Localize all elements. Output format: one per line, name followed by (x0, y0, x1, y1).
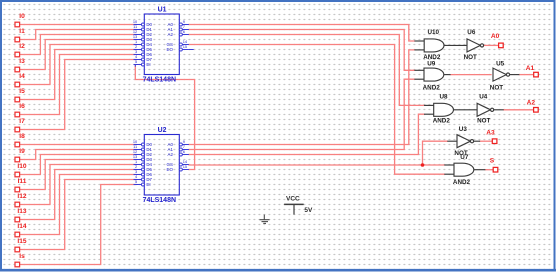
svg-text:NOT: NOT (477, 117, 490, 124)
svg-text:U8: U8 (440, 94, 449, 101)
svg-text:U3: U3 (459, 126, 468, 133)
not gate U6 (467, 39, 484, 52)
wire I15 to U2.D7 (20, 180, 136, 250)
svg-text:VCC: VCC (286, 195, 300, 202)
svg-text:EO: EO (167, 47, 174, 52)
svg-text:U4: U4 (479, 94, 488, 101)
wire I12 to U2.D4 (20, 165, 136, 205)
svg-text:74LS148N: 74LS148N (143, 77, 176, 84)
input connector I1 (15, 28, 25, 42)
and gate U10 (414, 39, 467, 52)
wire I2 to U1.D2 (20, 35, 136, 55)
wire U1.A2 to U8 input A (189, 35, 424, 106)
input connector I13 (15, 208, 27, 222)
svg-text:I12: I12 (17, 193, 26, 200)
wire I11 to U2.D3 (20, 160, 136, 190)
svg-text:I13: I13 (17, 208, 26, 215)
output connector A1 (526, 65, 539, 77)
wire U1.GS to U7 input B (189, 45, 444, 175)
junction node U2.GS branch (421, 163, 425, 167)
wire I7 to U1.D7 (20, 60, 136, 130)
input connector I4 (15, 73, 25, 87)
input connector I14 (15, 223, 27, 237)
not gate U4 (477, 103, 504, 116)
wire U9 output to U5 input (451, 74, 492, 76)
svg-text:U10: U10 (428, 29, 440, 36)
encoder U1 74LS148N (133, 7, 194, 84)
svg-text:I7: I7 (19, 118, 25, 125)
wire U2.A0 to U10 input B (189, 50, 415, 145)
wire I8 to U2.D0 (20, 144, 136, 146)
svg-text:AND2: AND2 (423, 84, 441, 91)
svg-text:A2: A2 (168, 32, 174, 37)
wire U5 output to A1 (519, 74, 533, 76)
ground (260, 215, 270, 224)
output connector A2 (527, 100, 539, 112)
input connector I5 (15, 88, 25, 102)
not gate U5 (493, 68, 519, 81)
svg-text:NOT: NOT (464, 54, 477, 61)
svg-text:A0: A0 (491, 33, 500, 40)
svg-text:U5: U5 (496, 60, 505, 67)
output connector A0 (491, 33, 503, 48)
wire U2.GS to U7 input A (189, 164, 444, 166)
wire U2.A1 to U9 input B (189, 79, 415, 149)
encoder U2 74LS148N (133, 127, 189, 204)
svg-text:I11: I11 (18, 178, 27, 185)
svg-text:NOT: NOT (454, 150, 467, 157)
svg-text:5V: 5V (304, 207, 313, 214)
svg-text:15: 15 (183, 44, 187, 49)
svg-text:A2: A2 (527, 100, 536, 107)
svg-text:6: 6 (183, 149, 185, 154)
wire U1.A1 to U9 input A (189, 30, 415, 71)
wire I4 to U1.D4 (20, 45, 136, 85)
input connector I11 (15, 178, 27, 192)
svg-text:I8: I8 (19, 133, 25, 140)
wire U3 output to A3 (480, 140, 492, 142)
svg-text:A1: A1 (526, 65, 535, 72)
svg-text:I0: I0 (19, 13, 25, 20)
input connector I12 (15, 193, 27, 207)
svg-text:I14: I14 (17, 223, 26, 230)
wire U7 output to S (485, 169, 493, 171)
svg-text:I2: I2 (19, 43, 25, 50)
svg-text:I3: I3 (19, 58, 25, 65)
wire I14 to U2.D6 (20, 175, 136, 235)
svg-text:5: 5 (135, 179, 137, 184)
svg-text:AND2: AND2 (453, 179, 471, 186)
input connector I2 (15, 43, 25, 57)
and gate U7 (444, 163, 485, 176)
wire U4 output to A2 (504, 109, 534, 111)
svg-text:I6: I6 (19, 103, 25, 110)
input connector Is (15, 253, 25, 267)
svg-text:I10: I10 (17, 163, 26, 170)
svg-text:NOT: NOT (490, 84, 503, 91)
svg-text:I15: I15 (17, 238, 26, 245)
svg-text:6: 6 (183, 29, 185, 34)
input connector I8 (15, 133, 25, 147)
svg-text:EO: EO (167, 167, 174, 172)
svg-text:EI: EI (146, 62, 150, 67)
svg-text:74LS148N: 74LS148N (143, 197, 176, 204)
svg-text:I4: I4 (19, 73, 25, 80)
svg-text:15: 15 (183, 164, 187, 169)
svg-text:EI: EI (146, 182, 150, 187)
wire Is to U2.EI (20, 185, 136, 265)
svg-text:5: 5 (135, 59, 137, 64)
input connector I0 (15, 13, 25, 27)
wire I13 to U2.D5 (20, 170, 136, 220)
svg-text:I1: I1 (19, 28, 25, 35)
input connector I3 (15, 58, 25, 72)
svg-text:I9: I9 (19, 148, 25, 155)
svg-text:I5: I5 (19, 88, 25, 95)
wire U6 output to A0 (484, 44, 498, 46)
not gate U3 (447, 135, 480, 148)
input connector I15 (15, 238, 27, 252)
svg-text:Is: Is (19, 253, 25, 260)
power VCC 5V (284, 195, 313, 214)
input connector I9 (15, 148, 25, 162)
svg-text:A3: A3 (486, 129, 495, 136)
wire I10 to U2.D2 (20, 155, 136, 175)
wire cascade U2.EO to U1.EI (135, 66, 194, 170)
output connector A3 (486, 129, 497, 143)
svg-text:U1: U1 (158, 7, 167, 14)
svg-text:A2: A2 (168, 152, 174, 157)
input connector I10 (15, 163, 27, 177)
and gate U8 (424, 103, 477, 116)
wire U1.A0 to U10 input A (189, 25, 415, 42)
input connector I6 (15, 103, 25, 117)
wire I5 to U1.D5 (20, 50, 136, 100)
wire U2.A2 to U8 input B (189, 114, 424, 154)
wire I6 to U1.D6 (20, 55, 136, 115)
svg-text:U9: U9 (427, 60, 436, 67)
wire I9 to U2.D1 (20, 150, 136, 160)
and gate U9 (414, 68, 450, 81)
svg-text:U2: U2 (158, 127, 167, 134)
wire I0 to U1.D0 (20, 24, 136, 26)
output connector S (490, 158, 498, 172)
svg-text:U6: U6 (467, 29, 476, 36)
wire I3 to U1.D3 (20, 40, 136, 70)
wire I1 to U1.D1 (20, 30, 136, 40)
svg-text:S: S (490, 158, 495, 165)
wire branch U2.GS to U3 input (423, 141, 448, 165)
svg-text:AND2: AND2 (433, 117, 451, 124)
input connector I7 (15, 118, 25, 132)
